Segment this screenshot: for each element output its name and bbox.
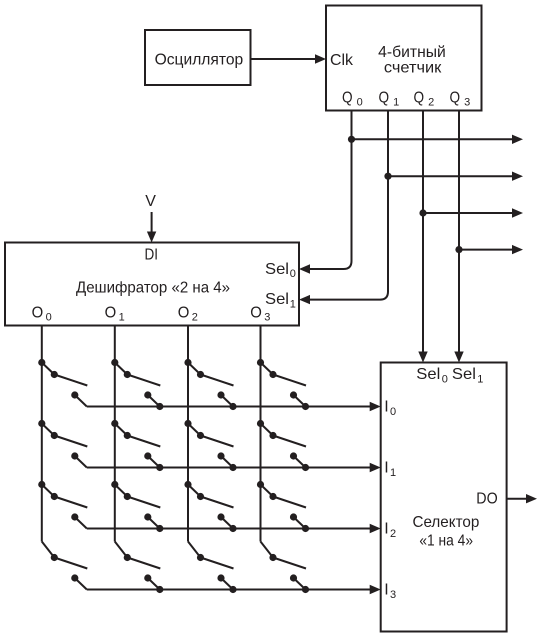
svg-text:Clk: Clk [330,52,354,69]
svg-text:DO: DO [476,490,497,507]
svg-text:Селектор: Селектор [413,514,480,531]
svg-text:DI: DI [144,247,158,264]
svg-text:счетчик: счетчик [384,59,442,76]
svg-text:V: V [145,193,156,210]
svg-text:Осциллятор: Осциллятор [155,51,244,68]
svg-text:«1 на 4»: «1 на 4» [419,532,473,549]
svg-text:Дешифратор «2 на 4»: Дешифратор «2 на 4» [76,280,230,297]
